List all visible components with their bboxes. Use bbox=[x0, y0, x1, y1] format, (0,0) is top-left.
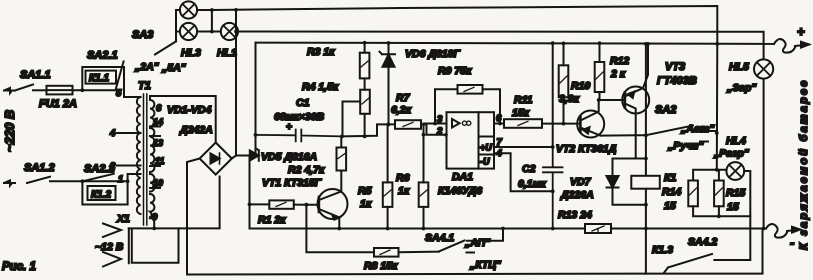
switch SA3 blade bbox=[155, 41, 176, 54]
node bbox=[126, 179, 130, 183]
svg-text:R3 1к: R3 1к bbox=[307, 46, 335, 58]
lamp HL1 bbox=[221, 23, 238, 40]
svg-text:VD1-VD4: VD1-VD4 bbox=[167, 104, 212, 116]
svg-text:Т1: Т1 bbox=[138, 80, 151, 92]
wire Vplus vertical bbox=[552, 43, 554, 147]
svg-text:R8 15к: R8 15к bbox=[364, 260, 398, 272]
resistor R2 bbox=[337, 148, 347, 171]
resistor R4 bbox=[360, 90, 370, 114]
resistor R13 bbox=[585, 224, 611, 233]
wire VD7 loop bbox=[613, 159, 646, 205]
switch SA1.1 bbox=[15, 85, 33, 91]
SA2 contact avt bbox=[700, 127, 717, 132]
wire bbox=[73, 89, 116, 91]
node bbox=[81, 179, 85, 183]
transistor VT1 bbox=[318, 189, 348, 219]
wire top between lamps bbox=[197, 10, 212, 32]
switch SA2.2 blade bbox=[82, 174, 113, 182]
svg-text:+U: +U bbox=[480, 143, 492, 153]
wire VT2 collector to VT3 base bbox=[599, 99, 625, 101]
svg-text:„Ручн": „Ручн" bbox=[667, 140, 705, 152]
wire HL4 right down bbox=[714, 171, 750, 260]
node C1 tap bbox=[254, 133, 258, 137]
X1 pin chevron bottom bbox=[103, 252, 121, 267]
svg-text:R13 24: R13 24 bbox=[558, 209, 592, 221]
svg-text:R5: R5 bbox=[358, 185, 372, 197]
svg-text:„КТЦ": „КТЦ" bbox=[469, 259, 502, 271]
svg-text:15: 15 bbox=[664, 200, 676, 212]
resistor R14 bbox=[688, 181, 698, 207]
svg-text:VD6 Д818Г: VD6 Д818Г bbox=[405, 48, 460, 60]
svg-text:ГТ403В: ГТ403В bbox=[657, 75, 697, 87]
svg-text:R11: R11 bbox=[514, 94, 533, 106]
node bbox=[80, 88, 84, 92]
wire right vertical from top bbox=[716, 44, 719, 170]
node R6 top bbox=[422, 133, 426, 137]
wire top rail to right bbox=[212, 6, 717, 44]
SECTION: control bbox=[245, 41, 775, 272]
svg-text:„Зар": „Зар" bbox=[726, 82, 757, 94]
fuse FU1 bbox=[47, 86, 73, 95]
wire bottom right vertical bbox=[645, 229, 763, 274]
svg-text:~12 В: ~12 В bbox=[95, 241, 124, 253]
lamp HL5 bbox=[754, 59, 773, 78]
wire bbox=[33, 89, 47, 91]
transformer T1 secondary winding bbox=[150, 100, 154, 126]
svg-text:К1.3: К1.3 bbox=[652, 244, 673, 256]
SECTION: bridge bbox=[187, 143, 645, 275]
connector X1 box bbox=[132, 228, 179, 262]
node R6 bbox=[422, 227, 426, 231]
secondary tap 11 stub bbox=[150, 165, 160, 167]
node tap9 bbox=[152, 227, 156, 231]
svg-text:VT1 КТ315Г: VT1 КТ315Г bbox=[262, 177, 322, 189]
relay contact K1.2 bypass loop bbox=[82, 181, 127, 204]
primary tap 5 stub bbox=[136, 96, 141, 98]
svg-text:0,1мк: 0,1мк bbox=[518, 178, 546, 190]
svg-text:-U: -U bbox=[480, 157, 490, 167]
svg-text:2: 2 bbox=[436, 126, 443, 137]
wire relay vertical bbox=[645, 44, 647, 274]
svg-text:2 к: 2 к bbox=[610, 68, 626, 80]
wire to tap 5 bbox=[124, 67, 136, 97]
node HL4 rail bbox=[715, 168, 719, 172]
transistor VT3 bbox=[622, 87, 649, 114]
wire R8 riser bbox=[306, 205, 374, 253]
wire lamps left vertical bbox=[176, 10, 180, 41]
wire AP contact to bus bbox=[467, 229, 503, 241]
svg-text:1к: 1к bbox=[360, 198, 372, 210]
svg-text:HL1: HL1 bbox=[217, 47, 237, 59]
svg-text:Д242А: Д242А bbox=[179, 124, 213, 136]
capacitor C1 bbox=[256, 130, 343, 142]
minus output squiggle bbox=[766, 224, 787, 238]
svg-text:SA1.2: SA1.2 bbox=[24, 162, 55, 174]
node ref R2 bbox=[340, 135, 344, 139]
svg-text:С1: С1 bbox=[296, 97, 310, 109]
wire HL4 top rail bbox=[693, 170, 727, 181]
wire supply left vertical bbox=[255, 43, 257, 156]
op-amp DA1 box bbox=[447, 112, 495, 168]
svg-text:R4 1,5к: R4 1,5к bbox=[302, 81, 339, 93]
svg-text:К140УД6: К140УД6 bbox=[438, 185, 482, 197]
transformer T1 primary winding bbox=[137, 97, 141, 214]
switch SA2 blade bbox=[646, 126, 693, 136]
bottom minus wire bbox=[187, 273, 645, 276]
svg-text:+: + bbox=[286, 122, 292, 133]
svg-text:R7: R7 bbox=[396, 92, 411, 104]
wire HL1 down to bridge plus bbox=[235, 32, 237, 156]
switch SA4.1 blade bbox=[439, 241, 465, 252]
svg-text:-: - bbox=[790, 235, 794, 250]
node R7 left bbox=[387, 123, 391, 127]
svg-text:SA2.1: SA2.1 bbox=[87, 50, 118, 62]
net ~220V upper arrow bbox=[4, 90, 15, 92]
svg-text:HL5: HL5 bbox=[729, 61, 749, 73]
bridge diode symbol bbox=[211, 154, 220, 164]
svg-text:R9 75к: R9 75к bbox=[438, 65, 472, 77]
wire hl1 right vertical bbox=[235, 10, 237, 32]
svg-text:5: 5 bbox=[116, 88, 122, 99]
wire R3R4 tap bbox=[343, 102, 361, 137]
wire VT2 emitter to vertical bbox=[601, 134, 646, 136]
svg-text:DА1: DА1 bbox=[452, 171, 473, 183]
relay K1 coil bbox=[631, 176, 660, 189]
primary tap 4 stub bbox=[117, 132, 141, 134]
SA2 contact ruchn bbox=[700, 141, 708, 143]
svg-text:1к: 1к bbox=[398, 185, 410, 197]
svg-text:„Разр": „Разр" bbox=[713, 148, 750, 160]
svg-text:9: 9 bbox=[152, 212, 158, 223]
net ~220V lower arrow bbox=[4, 182, 15, 184]
svg-text:+: + bbox=[797, 24, 805, 39]
zener VD5 bbox=[245, 148, 259, 160]
svg-text:С2: С2 bbox=[522, 163, 536, 175]
resistor R15 bbox=[714, 181, 724, 207]
wire lamp rail to HL5 bbox=[238, 32, 764, 59]
svg-text:SА4.2: SА4.2 bbox=[688, 236, 717, 248]
wire VD5 node down bbox=[249, 156, 251, 229]
svg-text:Рис. 1: Рис. 1 bbox=[2, 261, 36, 273]
svg-text:VT2 КТ361Д: VT2 КТ361Д bbox=[556, 143, 617, 155]
resistor R5 bbox=[383, 182, 393, 207]
svg-text:6,2к: 6,2к bbox=[391, 104, 412, 116]
secondary tap 13 stub bbox=[150, 135, 160, 137]
svg-text:R2 4,7к: R2 4,7к bbox=[288, 164, 325, 176]
svg-text:К заряжаемой батарее: К заряжаемой батарее bbox=[798, 78, 810, 250]
SECTION: mains left bbox=[2, 50, 136, 205]
svg-text:11: 11 bbox=[155, 156, 164, 166]
node bbox=[210, 30, 214, 34]
switch SA4.2 blade bbox=[664, 254, 713, 273]
svg-text:6: 6 bbox=[156, 103, 162, 114]
svg-text:R6: R6 bbox=[396, 172, 410, 184]
svg-text:13: 13 bbox=[153, 138, 163, 148]
diode VD7 bbox=[607, 176, 619, 188]
node AP riser bbox=[501, 227, 505, 231]
svg-text:„2А": „2А" bbox=[134, 61, 160, 73]
lamp HL4 bbox=[726, 162, 744, 180]
wire bridge minus down bbox=[187, 159, 200, 275]
lamp HL2 bbox=[180, 1, 197, 18]
svg-text:„АП": „АП" bbox=[464, 237, 491, 249]
svg-text:2: 2 bbox=[109, 161, 116, 172]
svg-text:15к: 15к bbox=[512, 107, 530, 119]
resistor R12 bbox=[595, 62, 605, 92]
node R1 left bbox=[248, 203, 252, 207]
node R1 right bbox=[305, 203, 309, 207]
svg-text:HL4: HL4 bbox=[726, 135, 746, 147]
wire HL5 down bbox=[763, 79, 765, 229]
wire bbox=[50, 180, 128, 182]
svg-text:К1: К1 bbox=[664, 172, 676, 184]
secondary tap 9 wire bbox=[150, 217, 154, 228]
secondary tap 10 stub bbox=[150, 187, 160, 189]
X1 pin chevron top bbox=[103, 224, 121, 238]
secondary tap 14 stub bbox=[150, 126, 160, 128]
capacitor C2 bbox=[543, 147, 563, 229]
relay contact K1.2 box bbox=[88, 186, 116, 200]
wire to tap 1 bbox=[128, 174, 136, 181]
transformer core bbox=[144, 94, 147, 225]
svg-text:FU1 2А: FU1 2А bbox=[39, 98, 77, 110]
svg-text:R1 2к: R1 2к bbox=[258, 214, 286, 226]
resistor R11 bbox=[504, 119, 542, 128]
svg-text:68мк×30В: 68мк×30В bbox=[274, 111, 325, 123]
svg-text:R10: R10 bbox=[571, 80, 590, 92]
zener VD6 bbox=[380, 43, 396, 124]
svg-text:К1.1: К1.1 bbox=[89, 73, 109, 84]
primary tap 1 stub bbox=[136, 173, 141, 175]
svg-text:Д226А: Д226А bbox=[560, 189, 594, 201]
wire HL1 left bbox=[212, 31, 221, 33]
SECTION: transformer bbox=[95, 80, 220, 267]
svg-text:4: 4 bbox=[109, 128, 116, 139]
relay contact K1.1 box bbox=[86, 71, 117, 84]
transistor VT2 bbox=[577, 111, 604, 138]
svg-text:VD7: VD7 bbox=[570, 176, 592, 188]
resistor R10 bbox=[559, 65, 569, 97]
primary tap 2 stub bbox=[117, 165, 141, 167]
resistor R7 bbox=[395, 120, 421, 129]
switch SA1.2 bbox=[27, 177, 50, 183]
svg-text:1: 1 bbox=[118, 174, 123, 185]
svg-text:„5А": „5А" bbox=[161, 62, 187, 74]
node VT1 emitter bbox=[337, 227, 341, 231]
wire HL4 bottom rail bbox=[693, 206, 750, 216]
svg-text:14: 14 bbox=[153, 117, 163, 127]
svg-text:SА2: SА2 bbox=[655, 104, 676, 116]
rectifier bridge VD1-VD4 diamond bbox=[200, 143, 232, 175]
node bbox=[210, 8, 214, 12]
wire R7 to pin2 bbox=[421, 125, 447, 135]
lamp HL3 bbox=[180, 23, 197, 40]
svg-text:„Авт": „Авт" bbox=[680, 123, 715, 135]
main bus minus rail bbox=[250, 228, 767, 230]
svg-text:SА3: SА3 bbox=[132, 29, 153, 41]
wire tap9 to bridge ac2 bbox=[129, 177, 220, 229]
node R5 bbox=[386, 227, 390, 231]
svg-text:10: 10 bbox=[153, 178, 163, 188]
resistor R8 bbox=[374, 248, 399, 257]
svg-text:SА4.1: SА4.1 bbox=[425, 232, 454, 244]
resistor R9 feedback bbox=[435, 89, 458, 123]
plus rail bbox=[256, 43, 775, 44]
svg-text:VD5 Д816А: VD5 Д816А bbox=[261, 151, 317, 163]
switch SA2.1 blade bbox=[116, 62, 124, 91]
svg-text:3,9к: 3,9к bbox=[559, 93, 580, 105]
svg-text:SA1.1: SA1.1 bbox=[20, 69, 51, 81]
resistor R3 bbox=[360, 53, 370, 79]
svg-text:Х1: Х1 bbox=[116, 213, 130, 225]
svg-text:HL3: HL3 bbox=[181, 47, 201, 59]
svg-text:К1.2: К1.2 bbox=[91, 190, 111, 201]
wire bypass left riser bbox=[82, 67, 124, 90]
node VT2 collector R12 bbox=[597, 98, 601, 102]
svg-text:15: 15 bbox=[727, 201, 739, 213]
svg-text:R12: R12 bbox=[610, 55, 629, 67]
resistor R6 bbox=[419, 182, 429, 207]
connector X1 double bar bbox=[129, 228, 132, 263]
node R10 bottom bbox=[562, 122, 566, 126]
plus output squiggle bbox=[774, 39, 795, 53]
secondary tap 6 wire to bridge bbox=[150, 96, 216, 143]
wire ref to pin2 bbox=[342, 124, 395, 136]
SECTION: lamps top bbox=[132, 1, 764, 155]
svg-text:VT3: VT3 bbox=[665, 61, 685, 73]
svg-text:R15: R15 bbox=[726, 187, 745, 199]
resistor R1 bbox=[269, 200, 294, 208]
wire bridge plus to VD5 bbox=[232, 156, 250, 159]
svg-text:R14: R14 bbox=[662, 186, 681, 198]
svg-text:~220 В: ~220 В bbox=[2, 110, 17, 152]
op-amp symbol bbox=[452, 119, 460, 128]
